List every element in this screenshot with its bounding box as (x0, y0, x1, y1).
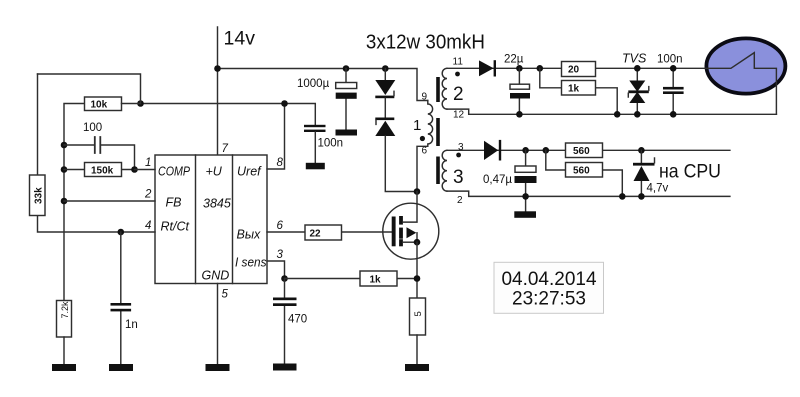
svg-text:9: 9 (422, 92, 428, 103)
node: 0.47u top (522, 147, 529, 154)
svg-text:3: 3 (453, 167, 464, 188)
svg-text:3: 3 (277, 249, 284, 261)
svg-text:5: 5 (222, 289, 229, 301)
ground under 1000u (336, 130, 358, 136)
svg-text:8: 8 (277, 157, 284, 169)
wire: 14v bus to transformer pin 9 (218, 69, 428, 101)
date stamp box (494, 262, 604, 313)
resistor 33k (30, 175, 46, 216)
zener D 4.7v (638, 147, 645, 154)
node: 20/1k branch (537, 65, 544, 72)
capacitor C 1000u plates (336, 83, 357, 89)
svg-text:22: 22 (310, 229, 322, 240)
node: bus/1000u junction (343, 65, 350, 72)
svg-text:100n: 100n (657, 54, 683, 66)
svg-text:14v: 14v (224, 28, 256, 50)
node: 560 branch (543, 147, 550, 154)
wire: pin 8 Uref to rail (267, 104, 285, 170)
svg-text:GND: GND (202, 269, 230, 283)
svg-text:4,7v: 4,7v (647, 183, 669, 195)
svg-text:1k: 1k (370, 275, 382, 286)
svg-text:1n: 1n (125, 319, 138, 331)
node: rail/150k (61, 166, 68, 173)
winding 1 polarity dot (420, 136, 425, 141)
resistor 7.2k (57, 301, 72, 338)
ground under pin 5 (206, 364, 230, 371)
svg-text:5: 5 (413, 311, 424, 316)
svg-text:33k: 33k (34, 187, 45, 204)
node: rail/100 (61, 142, 68, 149)
capacitor C 1000u leads (345, 69, 347, 130)
svg-text:1: 1 (413, 117, 421, 134)
svg-text:на CPU: на CPU (659, 162, 721, 183)
waveform inside scope (705, 53, 776, 115)
svg-text:7.2k: 7.2k (60, 301, 70, 319)
resistor 560 b (546, 150, 623, 196)
svg-text:2: 2 (144, 189, 152, 201)
svg-text:100: 100 (83, 122, 102, 134)
wire: Uref rail (141, 104, 316, 125)
svg-text:23:27:53: 23:27:53 (512, 289, 586, 310)
svg-text:560: 560 (573, 166, 590, 177)
svg-text:3: 3 (458, 142, 464, 153)
transformer winding 1 (primary) (417, 101, 433, 192)
node: 22u bottom (516, 111, 523, 118)
svg-text:20: 20 (568, 65, 580, 76)
transformer winding 2 (442, 68, 447, 109)
capacitor C 100n (Uref bypass) (304, 125, 326, 127)
diode D3 (winding 3 rectifier) (484, 141, 498, 160)
zener D snubber top (cathode down) (384, 69, 386, 81)
IC U1 3845 body (155, 155, 267, 284)
svg-text:12: 12 (453, 110, 465, 121)
svg-text:FB: FB (166, 196, 182, 210)
svg-text:04.04.2014: 04.04.2014 (501, 269, 597, 290)
winding 3 polarity dot (456, 153, 461, 158)
MOSFET gate bar (392, 217, 396, 247)
svg-text:Uref: Uref (237, 165, 262, 179)
node: Uref rail / pin8 (281, 100, 288, 107)
resistor 1k (output) (540, 68, 617, 114)
ground under 5 (405, 364, 429, 371)
node: bus/snubber junction (382, 65, 389, 72)
wire: pin 6 gate drive (267, 231, 392, 233)
resistor 10k (85, 97, 122, 111)
node: 1k bottom (614, 111, 621, 118)
svg-text:470: 470 (288, 314, 307, 326)
svg-text:22µ: 22µ (504, 54, 524, 66)
svg-text:100n: 100n (318, 138, 344, 150)
svg-text:COMP: COMP (158, 165, 191, 179)
scope load ellipse (706, 38, 785, 93)
svg-text:1: 1 (145, 157, 151, 169)
svg-text:6: 6 (422, 146, 428, 157)
svg-text:Rt/Ct: Rt/Ct (161, 220, 190, 234)
wire: pin 2 FB (64, 200, 155, 202)
resistor 150k (64, 169, 135, 171)
wire: pin 1 COMP (135, 169, 156, 171)
node: drain junction (414, 188, 421, 195)
svg-text:560: 560 (573, 146, 590, 157)
wire: 33k rail (38, 74, 156, 232)
node: bus/14v junction (214, 65, 221, 72)
capacitor C 100 (64, 145, 135, 170)
wire: top-left from 33k to Uref rail (38, 74, 141, 104)
MOSFET channel segments (399, 216, 403, 225)
node: 0.47u/return rail (522, 193, 529, 200)
svg-text:7: 7 (222, 143, 229, 155)
node: 560b bottom (619, 193, 626, 200)
svg-text:2: 2 (453, 84, 464, 105)
node: I sens (281, 275, 288, 282)
capacitor C 470 (284, 279, 286, 364)
svg-text:11: 11 (453, 57, 464, 68)
zener D snubber bottom (cathode up) (384, 98, 386, 117)
svg-text:1000µ: 1000µ (297, 78, 330, 90)
node: 150k/100/pin1 (131, 166, 138, 173)
node: rail/FB (61, 198, 68, 205)
ground under 470 (273, 364, 297, 371)
svg-text:3845: 3845 (203, 197, 231, 211)
resistor 5 (410, 298, 426, 335)
wire: output rail 3 top (447, 149, 730, 151)
wire: winding 2 return rail (447, 109, 776, 114)
node: 22u top (516, 65, 523, 72)
wire: winding 3 return rail (447, 191, 730, 196)
winding 2 polarity dot (455, 72, 460, 77)
node: Rt/Ct / 1n (118, 229, 125, 236)
MOSFET source link (403, 241, 417, 243)
svg-text:1k: 1k (568, 84, 580, 95)
wire: left vertical node rail (64, 104, 85, 301)
ground under 7.2k (52, 364, 76, 371)
wire: 14v input feed down to pin 7 (217, 27, 219, 155)
resistor 20 (562, 62, 596, 77)
capacitor C 1n (120, 232, 122, 364)
transformer core (436, 77, 440, 102)
node: Uref rail / 10k (137, 100, 144, 107)
capacitor C 0.47u (525, 150, 527, 211)
svg-text:Вых: Вых (237, 228, 262, 242)
MOSFET body arrow (407, 227, 417, 238)
resistor 22 (305, 225, 342, 240)
diode D2 (winding 2 rectifier) (479, 60, 494, 76)
wire: source down (416, 242, 418, 298)
ground under 100n (306, 163, 325, 170)
svg-text:10k: 10k (91, 100, 108, 111)
transistor Q1 MOSFET circle (383, 203, 439, 259)
wire: pin 5 GND (217, 284, 219, 365)
transformer winding 3 (442, 150, 447, 191)
capacitor C 22u (518, 68, 520, 114)
ground under 0.47u (514, 211, 536, 218)
wire 10k right (122, 103, 141, 105)
svg-text:4: 4 (145, 220, 151, 232)
node: source/1k (414, 275, 421, 282)
svg-text:TVS: TVS (622, 52, 647, 66)
resistor 1k (sense) (285, 278, 418, 280)
ground under 1n (109, 364, 133, 371)
resistor 560 a (566, 143, 603, 158)
svg-text:2: 2 (457, 195, 463, 206)
svg-text:3x12w 30mkH: 3x12w 30mkH (366, 31, 485, 54)
svg-text:+U: +U (206, 165, 223, 179)
MOSFET drain link (403, 192, 417, 223)
svg-text:150k: 150k (91, 166, 114, 177)
wire: output rail 2 top (447, 67, 705, 69)
svg-text:6: 6 (277, 220, 284, 232)
svg-text:I sens: I sens (235, 256, 267, 270)
svg-text:0,47µ: 0,47µ (483, 174, 512, 186)
wire: pin 3 I sens (267, 261, 285, 279)
wire: snubber to drain node (385, 136, 417, 192)
